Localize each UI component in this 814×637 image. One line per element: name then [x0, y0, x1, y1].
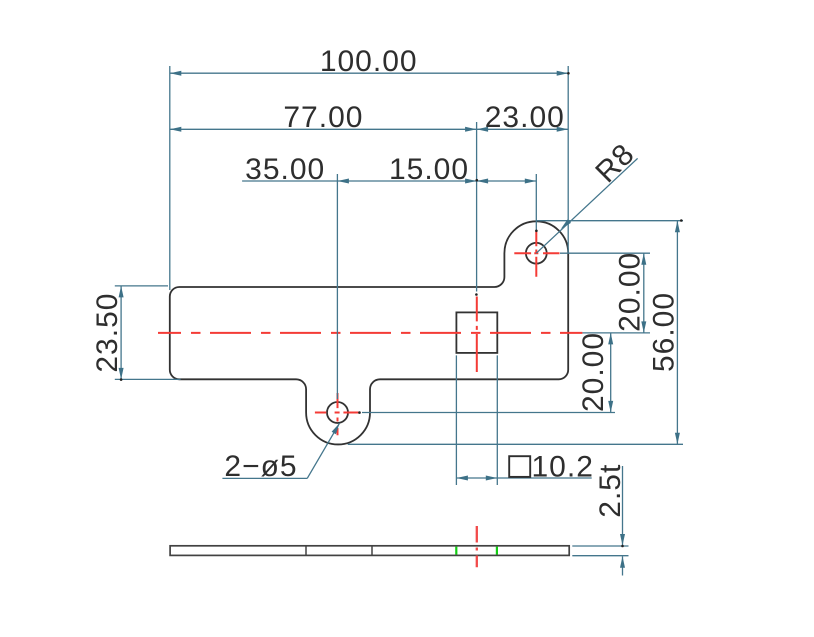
- extension line vertical part right edge: [567, 66, 569, 253]
- svg-text:20.00: 20.00: [614, 252, 647, 332]
- radius leader R8: [536, 137, 641, 253]
- point dot 2.5t top extension: [621, 545, 624, 548]
- extension line vertical bottom hole center: [336, 174, 338, 399]
- extension line horizontal left top: [115, 285, 168, 287]
- dimension 20.00 lower vertical: [577, 332, 613, 412]
- extension line horizontal top hole center: [560, 252, 650, 254]
- side view red centerline: [476, 526, 478, 567]
- side view plate: [170, 546, 569, 556]
- top hole center mark horizontal: [514, 252, 559, 254]
- svg-text:R8: R8: [589, 137, 641, 189]
- dimension 35.00: [242, 153, 477, 186]
- point dot dim 35/15 junction: [476, 179, 479, 182]
- svg-text:15.00: 15.00: [389, 153, 469, 186]
- bottom hole center mark vertical: [337, 393, 339, 435]
- svg-text:10.2: 10.2: [532, 450, 594, 483]
- top hole center mark vertical: [535, 230, 537, 276]
- svg-text:2.5t: 2.5t: [594, 464, 627, 518]
- extension line horizontal bump bottom: [348, 443, 683, 445]
- bottom hole center mark horizontal: [315, 412, 359, 414]
- extension line horizontal bottom hole center: [362, 412, 615, 414]
- svg-text:77.00: 77.00: [283, 101, 363, 134]
- extension line vertical left part edge: [169, 66, 171, 290]
- svg-text:100.00: 100.00: [320, 45, 418, 78]
- dimension square 10.2: [456, 450, 593, 483]
- svg-text:2−ø5: 2−ø5: [224, 450, 297, 483]
- side view square edge right (green): [496, 547, 498, 555]
- extension line horizontal left bottom: [115, 378, 181, 380]
- side view seam line left: [305, 546, 307, 556]
- extension line vertical top hole center: [535, 174, 537, 230]
- square vertical centerline: [476, 297, 478, 373]
- point dot dim 100.00 right: [567, 72, 570, 75]
- point dot top hole extension end: [535, 230, 538, 233]
- dimension 77.00: [170, 101, 477, 134]
- extension line horizontal tab top: [536, 220, 683, 222]
- dimension 2.5t thickness: [572, 464, 628, 576]
- svg-text:56.00: 56.00: [648, 292, 681, 372]
- side view seam line right: [371, 546, 373, 556]
- point dot square center extension end: [475, 293, 478, 296]
- point dot 56.00 top extension: [680, 219, 683, 222]
- dimension 23.00: [477, 101, 569, 134]
- side view square edge left (green): [455, 547, 457, 555]
- extension line vertical square left edge: [455, 355, 457, 485]
- part outline (top view plate): [170, 221, 568, 444]
- square cutout 10.2: [456, 312, 497, 353]
- dimension 100.00: [170, 45, 568, 78]
- point dot 23.50 bottom: [120, 378, 123, 381]
- svg-text:20.00: 20.00: [577, 332, 610, 412]
- main horizontal centerline: [158, 332, 582, 334]
- svg-text:35.00: 35.00: [245, 153, 325, 186]
- point dot bottom hole extension: [358, 411, 361, 414]
- extension line horizontal centerline right: [582, 332, 650, 334]
- dimension 15.00: [389, 153, 536, 186]
- dimension 56.00 right vertical: [648, 221, 681, 445]
- svg-text:23.50: 23.50: [91, 293, 124, 373]
- dimension 23.50 left vertical: [91, 286, 124, 380]
- hole bottom o5: [327, 402, 348, 423]
- hole top-right o5: [526, 243, 547, 264]
- dimension 20.00 upper vertical: [614, 252, 647, 333]
- svg-text:23.00: 23.00: [485, 101, 565, 134]
- extension line vertical square right edge: [496, 355, 498, 485]
- extension line vertical square center: [476, 122, 478, 292]
- hole leader 2-o5: [222, 423, 339, 483]
